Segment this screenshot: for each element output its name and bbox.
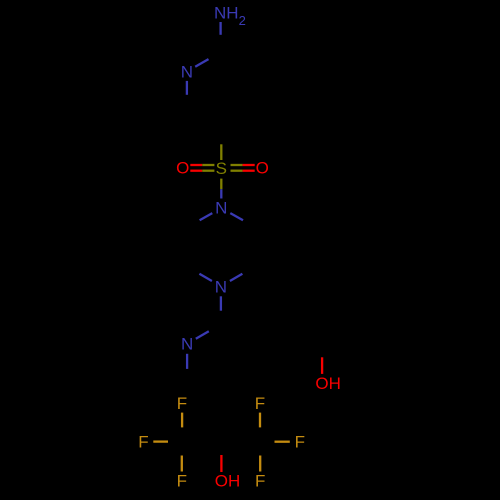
svg-text:F: F [177, 394, 187, 413]
svg-text:F: F [295, 433, 305, 452]
svg-text:F: F [255, 394, 265, 413]
wire Nbot-C left (N half) [199, 274, 212, 281]
wire S=O left double bond (red halves) [190, 164, 202, 166]
svg-text:O: O [176, 159, 189, 178]
wire F-C (F half) [275, 441, 290, 443]
wire S=O right double bond (S halves) [231, 164, 243, 166]
wire N1'-C2' (N half) [196, 331, 209, 339]
wire S-N piperazine (N half) [220, 189, 222, 198]
wire F-C (F half) [259, 413, 261, 428]
svg-text:N: N [215, 199, 227, 218]
wire C-OH bottom (O half) [220, 455, 222, 472]
svg-text:F: F [138, 432, 148, 451]
wire C-OH right (O half) [321, 357, 323, 374]
wire F-C (F half) [259, 456, 261, 472]
wire N1-C6 (N half) [186, 81, 188, 95]
svg-text:N: N [215, 277, 227, 296]
svg-text:OH: OH [315, 374, 341, 393]
svg-text:N: N [181, 63, 193, 82]
wire S=O right double bond (red halves) [243, 164, 255, 166]
svg-text:N: N [181, 335, 193, 354]
wire S-N piperazine (S half) [220, 179, 222, 190]
wire N1-C2 (N half) [195, 59, 208, 67]
svg-text:O: O [256, 159, 269, 178]
svg-text:F: F [177, 472, 187, 491]
wire F-C (F half) [153, 440, 168, 442]
wire Nbot-C2' pyridine (N half) [220, 296, 222, 310]
wire N1'-C6' (N half) [186, 354, 188, 369]
wire Ntop-C left (N half) [200, 213, 213, 220]
wire F-C (F half) [181, 456, 183, 472]
svg-text:S: S [216, 159, 227, 178]
wire F-C (F half) [181, 413, 183, 428]
svg-text:F: F [255, 472, 265, 491]
wire S=O left double bond (S halves) [202, 164, 214, 166]
wire Nbot-C right (N half) [230, 274, 243, 281]
wire C2-NH2 (N half) [219, 22, 221, 35]
svg-text:OH: OH [215, 472, 241, 491]
wire Ntop-C right (N half) [230, 213, 243, 220]
wire C5-S (S half) [220, 144, 222, 160]
